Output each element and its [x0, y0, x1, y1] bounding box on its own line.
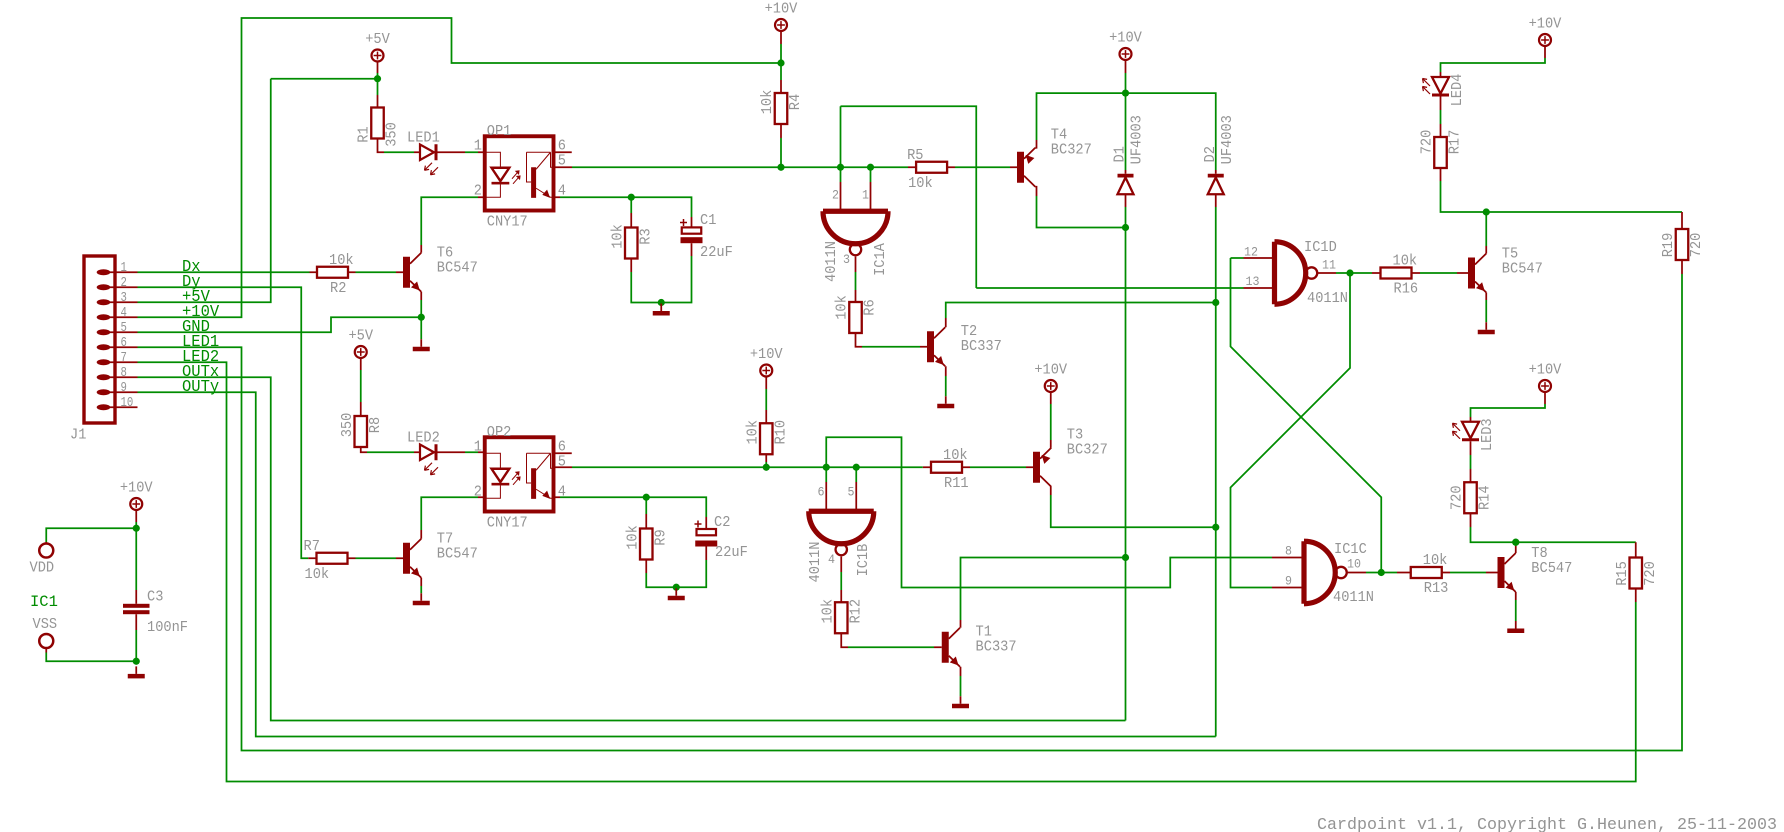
svg-text:7: 7 [121, 350, 127, 366]
svg-text:22uF: 22uF [715, 543, 748, 561]
svg-text:CNY17: CNY17 [487, 513, 528, 531]
svg-text:R4: R4 [786, 94, 804, 110]
svg-text:10k: 10k [743, 420, 761, 445]
svg-text:R11: R11 [944, 474, 969, 492]
svg-text:+10V: +10V [120, 479, 154, 497]
svg-text:R8: R8 [366, 417, 384, 433]
svg-text:+10V: +10V [750, 345, 784, 363]
svg-text:10k: 10k [833, 295, 851, 320]
svg-text:+10V: +10V [1034, 361, 1068, 379]
svg-text:350: 350 [383, 122, 401, 147]
svg-text:10k: 10k [623, 525, 641, 550]
svg-text:R19: R19 [1659, 233, 1677, 258]
svg-text:100nF: 100nF [147, 618, 188, 636]
svg-text:+10V: +10V [1529, 361, 1563, 379]
svg-text:4011N: 4011N [822, 241, 840, 282]
svg-text:IC1C: IC1C [1334, 540, 1367, 558]
svg-text:R2: R2 [330, 279, 346, 297]
svg-text:10k: 10k [1423, 551, 1448, 569]
svg-text:5: 5 [121, 320, 127, 336]
svg-text:4011N: 4011N [1307, 289, 1348, 307]
svg-text:4: 4 [121, 305, 127, 321]
svg-text:4011N: 4011N [806, 542, 824, 583]
svg-text:+5V: +5V [365, 30, 390, 48]
svg-text:11: 11 [1322, 259, 1336, 273]
svg-text:BC547: BC547 [1531, 559, 1572, 577]
svg-text:LED3: LED3 [1478, 418, 1496, 451]
svg-text:720: 720 [1448, 485, 1466, 510]
svg-text:UF4003: UF4003 [1128, 115, 1146, 164]
svg-text:2: 2 [121, 275, 127, 291]
svg-text:8: 8 [1285, 545, 1292, 559]
svg-text:10: 10 [121, 395, 134, 411]
svg-text:10k: 10k [1393, 252, 1418, 270]
svg-text:R9: R9 [651, 529, 669, 545]
svg-text:9: 9 [1285, 575, 1292, 589]
svg-text:LED4: LED4 [1448, 74, 1466, 107]
svg-text:1: 1 [474, 136, 482, 154]
svg-text:1: 1 [121, 260, 127, 276]
svg-text:BC337: BC337 [961, 337, 1002, 355]
svg-text:IC1: IC1 [30, 593, 58, 611]
svg-text:720: 720 [1641, 561, 1659, 586]
svg-text:BC547: BC547 [1502, 259, 1543, 277]
svg-text:R17: R17 [1446, 130, 1464, 155]
svg-text:C3: C3 [147, 588, 163, 606]
svg-text:720: 720 [1418, 130, 1436, 155]
svg-text:R15: R15 [1613, 561, 1631, 586]
svg-text:BC327: BC327 [1067, 440, 1108, 458]
svg-text:J1: J1 [70, 426, 86, 444]
svg-text:3: 3 [843, 253, 850, 267]
svg-text:R13: R13 [1424, 579, 1449, 597]
svg-text:3: 3 [121, 290, 127, 306]
svg-text:Cardpoint v1.1, Copyright G.He: Cardpoint v1.1, Copyright G.Heunen, 25-1… [1317, 815, 1777, 832]
svg-text:6: 6 [121, 335, 127, 351]
svg-text:R14: R14 [1476, 485, 1494, 510]
svg-text:10: 10 [1347, 558, 1361, 572]
svg-text:R12: R12 [846, 599, 864, 624]
svg-text:VDD: VDD [30, 559, 55, 577]
svg-text:+10V: +10V [765, 0, 799, 18]
svg-text:R6: R6 [861, 299, 879, 315]
svg-text:IC1A: IC1A [871, 242, 889, 276]
svg-text:2: 2 [832, 189, 839, 203]
svg-text:D1: D1 [1111, 146, 1129, 162]
svg-text:6: 6 [818, 486, 825, 500]
svg-text:+5V: +5V [348, 327, 373, 345]
svg-text:BC547: BC547 [437, 545, 478, 563]
svg-text:1: 1 [474, 437, 482, 455]
svg-text:10k: 10k [608, 224, 626, 249]
svg-text:13: 13 [1246, 275, 1260, 289]
svg-text:D2: D2 [1201, 146, 1219, 162]
svg-text:+10V: +10V [1529, 15, 1563, 33]
svg-text:4011N: 4011N [1333, 588, 1374, 606]
svg-text:1: 1 [862, 189, 869, 203]
svg-text:22uF: 22uF [700, 243, 733, 261]
svg-text:10k: 10k [943, 446, 968, 464]
svg-text:R5: R5 [907, 146, 923, 164]
svg-text:VSS: VSS [33, 615, 58, 633]
svg-text:R10: R10 [771, 420, 789, 445]
svg-text:9: 9 [121, 380, 127, 396]
svg-text:R7: R7 [304, 537, 320, 555]
svg-text:OP1: OP1 [487, 122, 512, 140]
svg-text:C1: C1 [700, 211, 716, 229]
svg-text:BC547: BC547 [437, 259, 478, 277]
svg-text:IC1D: IC1D [1304, 238, 1337, 256]
svg-text:10k: 10k [329, 251, 354, 269]
svg-text:720: 720 [1687, 233, 1705, 258]
svg-text:8: 8 [121, 365, 127, 381]
svg-text:BC337: BC337 [976, 638, 1017, 656]
svg-text:10k: 10k [908, 174, 933, 192]
svg-text:R16: R16 [1394, 280, 1419, 298]
svg-text:R3: R3 [636, 228, 654, 244]
svg-text:10k: 10k [758, 90, 776, 115]
svg-text:4: 4 [828, 553, 835, 567]
svg-text:R1: R1 [355, 126, 373, 142]
svg-text:UF4003: UF4003 [1218, 115, 1236, 164]
svg-text:LED1: LED1 [407, 128, 440, 146]
svg-text:10k: 10k [818, 599, 836, 624]
svg-text:OP2: OP2 [487, 423, 512, 441]
svg-text:LED2: LED2 [407, 428, 440, 446]
svg-text:5: 5 [848, 486, 855, 500]
svg-text:C2: C2 [714, 513, 730, 531]
svg-text:350: 350 [338, 413, 356, 438]
svg-text:BC327: BC327 [1051, 140, 1092, 158]
svg-text:IC1B: IC1B [854, 544, 872, 577]
svg-text:10k: 10k [305, 565, 330, 583]
svg-text:CNY17: CNY17 [487, 212, 528, 230]
svg-text:+10V: +10V [1109, 29, 1143, 47]
